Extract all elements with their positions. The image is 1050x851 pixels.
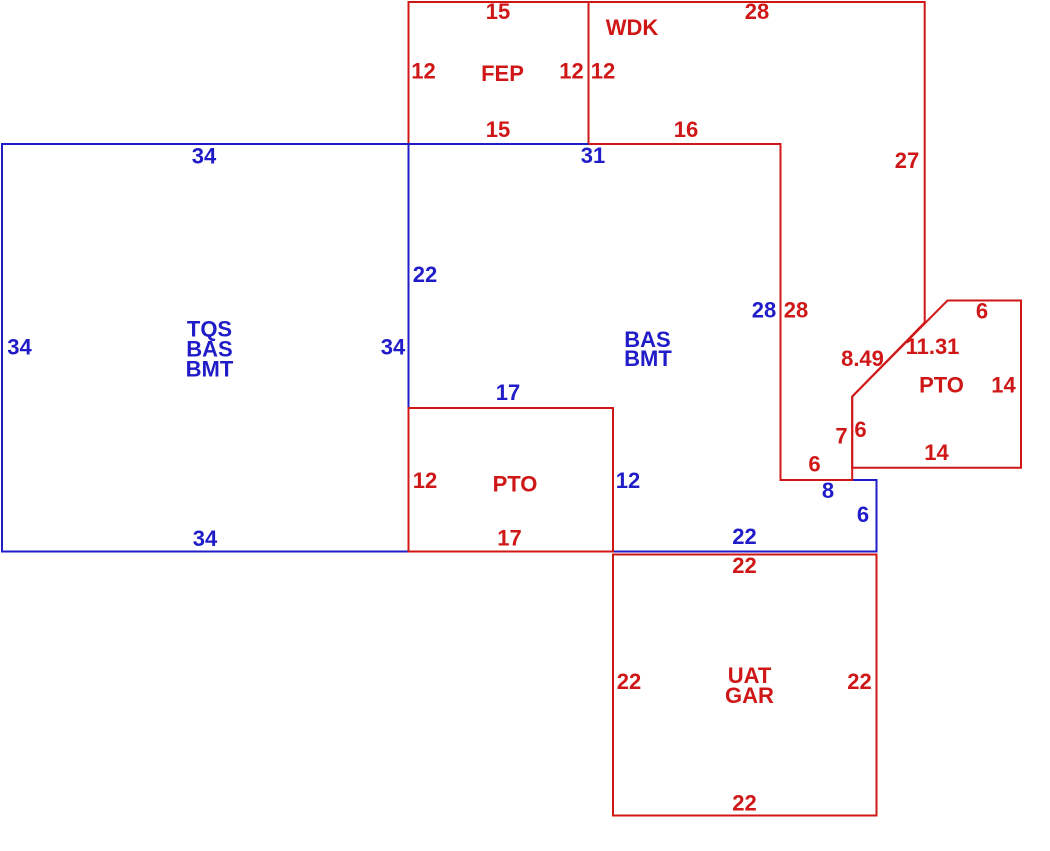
svg-text:7: 7: [835, 424, 847, 449]
svg-text:17: 17: [496, 380, 520, 405]
svg-text:16: 16: [674, 117, 698, 142]
svg-text:34: 34: [193, 526, 218, 551]
svg-text:WDK: WDK: [606, 15, 659, 40]
svg-text:6: 6: [857, 502, 869, 527]
svg-text:28: 28: [784, 298, 808, 323]
svg-text:22: 22: [847, 669, 871, 694]
svg-text:31: 31: [581, 143, 605, 168]
room TQS/BAS/BMT outline: [2, 144, 409, 552]
svg-text:11.31: 11.31: [906, 334, 960, 359]
svg-text:BMT: BMT: [186, 357, 234, 382]
svg-text:6: 6: [976, 299, 988, 324]
svg-text:34: 34: [7, 335, 32, 360]
room PTO lower outline: [409, 408, 614, 552]
wire blue top edge overline: [2, 143, 589, 145]
room WDK outline: [589, 2, 925, 480]
svg-text:15: 15: [486, 0, 510, 24]
svg-text:FEP: FEP: [481, 61, 524, 86]
svg-text:PTO: PTO: [493, 472, 538, 497]
svg-text:BMT: BMT: [624, 346, 672, 371]
room UAT/GAR outline: [613, 555, 877, 816]
svg-text:17: 17: [497, 526, 521, 551]
svg-text:12: 12: [559, 59, 583, 84]
svg-text:12: 12: [413, 468, 437, 493]
svg-text:34: 34: [381, 335, 406, 360]
svg-text:12: 12: [411, 59, 435, 84]
svg-text:8: 8: [822, 478, 834, 503]
room FEP outline: [409, 2, 589, 144]
svg-text:8.49: 8.49: [841, 346, 884, 371]
svg-text:22: 22: [732, 553, 756, 578]
svg-text:6: 6: [808, 452, 820, 477]
svg-text:34: 34: [192, 144, 217, 169]
svg-text:GAR: GAR: [725, 683, 774, 708]
room BAS/BMT outline: [409, 144, 877, 552]
svg-text:22: 22: [732, 524, 756, 549]
svg-text:28: 28: [745, 0, 769, 24]
svg-text:14: 14: [924, 440, 949, 465]
svg-text:28: 28: [752, 298, 776, 323]
svg-text:22: 22: [617, 669, 641, 694]
svg-text:15: 15: [486, 117, 510, 142]
svg-text:22: 22: [413, 262, 437, 287]
svg-text:12: 12: [616, 468, 640, 493]
svg-text:27: 27: [895, 148, 919, 173]
svg-text:12: 12: [591, 59, 615, 84]
room PTO right outline: [852, 301, 1021, 468]
svg-text:6: 6: [854, 417, 866, 442]
svg-text:PTO: PTO: [919, 373, 964, 398]
svg-text:14: 14: [991, 373, 1016, 398]
svg-text:22: 22: [732, 791, 756, 816]
